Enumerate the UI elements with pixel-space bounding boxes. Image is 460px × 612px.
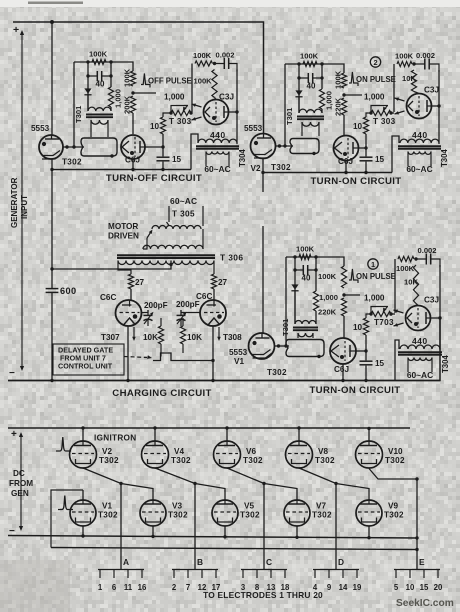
arrow turn-off to grid lower — [192, 117, 202, 120]
node DC bus tap V4 — [153, 426, 156, 429]
node turn-off cap40 left — [86, 74, 89, 77]
wire turn-on-1 pot-left to col3 — [366, 314, 371, 318]
wire turn-on-2 ground bus — [263, 172, 392, 174]
wire wiper to T306 primary — [143, 238, 147, 249]
wire V1 anode feed — [262, 226, 264, 333]
wire turn-on-2 right rail — [438, 70, 440, 144]
svg-text:1: 1 — [98, 583, 103, 592]
wire 10K right bottom — [182, 344, 184, 353]
svg-text:DRIVEN: DRIVEN — [108, 232, 139, 241]
wire anode V8 — [298, 428, 300, 441]
svg-text:V8: V8 — [318, 447, 328, 456]
arrow motor wiper — [147, 231, 152, 238]
transformer T304 turn-off — [196, 139, 239, 166]
node left rail at bottom bus — [50, 379, 53, 382]
svg-text:10: 10 — [353, 122, 363, 131]
wire cathode V3 — [152, 526, 154, 536]
node turn-on-1 cap40 left — [293, 268, 296, 271]
node turn-off plate junction — [161, 145, 164, 148]
wire turn-on-2 pulse stub — [344, 94, 362, 96]
svg-text:T302: T302 — [168, 511, 188, 520]
wire turn-off outer feedback rail — [73, 62, 75, 147]
ignitron 5553 V2 turn-on-2 — [251, 134, 276, 159]
wire turn-on-1 plate out — [431, 317, 441, 319]
svg-text:V2: V2 — [102, 447, 112, 456]
capacitor 15 turn-on-1 — [360, 360, 373, 365]
svg-text:10: 10 — [150, 122, 160, 131]
node gate to V1 column — [211, 359, 214, 362]
capacitor 40 turn-on-1 — [295, 269, 316, 271]
node turn-off 100K right — [109, 60, 112, 63]
node turn-off cathode a — [65, 145, 68, 148]
svg-text:5: 5 — [394, 583, 399, 592]
wire C6C right cathode — [212, 326, 214, 381]
labels electrodes 3-8-13-18 — [241, 583, 290, 592]
wire turn-on-1 C3J left rail — [394, 259, 396, 313]
node turn-on-2 cap40 left — [297, 76, 300, 79]
node left rail at turnoff bus — [50, 168, 53, 171]
wire turn-off right rail — [236, 70, 238, 145]
node turn-off col3 bus — [161, 168, 164, 171]
svg-text:C6C: C6C — [100, 293, 116, 302]
svg-text:1,000: 1,000 — [325, 91, 334, 110]
svg-text:440: 440 — [210, 130, 226, 140]
wire turn-on-1 top loop — [286, 257, 344, 266]
ignitron V2 — [70, 441, 97, 468]
svg-text:CONTROL UNIT: CONTROL UNIT — [58, 362, 113, 371]
svg-text:15: 15 — [375, 359, 385, 368]
node turn-on-1 pulse tap — [342, 293, 345, 296]
svg-text:100K: 100K — [300, 52, 319, 61]
resistor 10 turn-off — [160, 117, 165, 134]
node turn-on-1 C6J bus — [341, 379, 344, 382]
svg-text:GENERATOR: GENERATOR — [10, 177, 19, 228]
svg-text:T 303: T 303 — [373, 117, 396, 126]
svg-text:V5: V5 — [244, 502, 254, 511]
wire secondary left to 27 — [118, 261, 131, 275]
labels electrodes 2-7-12-17 — [172, 583, 221, 592]
svg-text:100K: 100K — [194, 77, 213, 86]
node turn-on-2 100K right — [320, 62, 323, 65]
thyratron C6J turn-off — [121, 135, 145, 159]
autotransformer T305 — [152, 226, 201, 230]
svg-text:0.002: 0.002 — [216, 51, 235, 60]
node column E cathode bus — [415, 548, 418, 551]
svg-text:ON PULSE: ON PULSE — [356, 272, 396, 281]
svg-text:10K: 10K — [402, 74, 416, 83]
node turn-off pulse tap — [131, 91, 134, 94]
wire turn-off grid drop — [132, 113, 134, 134]
wire turn-off C3J left rail — [191, 64, 193, 113]
node turn-on-2 C6J bus — [344, 171, 347, 174]
wire V2 cathode diagonal — [83, 468, 153, 500]
wire turn-on-1 1,000 bottom — [315, 311, 317, 324]
wire turn-off bus to T304 primary — [191, 134, 198, 170]
wire V6 cathode diagonal — [227, 468, 297, 500]
wire turn-on-1 bus to T304 primary — [395, 340, 399, 381]
svg-text:V2: V2 — [251, 164, 261, 173]
svg-text:V1: V1 — [234, 357, 244, 366]
thyratron C6J turn-on-1 — [330, 338, 356, 364]
svg-text:15: 15 — [420, 583, 429, 592]
wire V4 cathode diagonal — [155, 468, 225, 500]
svg-text:16: 16 — [138, 583, 147, 592]
wire V10 cathode to column E — [369, 469, 417, 570]
wire turn-off inner right rail — [110, 62, 112, 87]
electrode comb B — [172, 570, 218, 579]
svg-text:220K: 220K — [318, 308, 337, 317]
ignitron V10 — [356, 441, 383, 468]
wire C6C left cathode — [127, 326, 129, 381]
wire turn-on-1 inner right rail — [315, 257, 317, 291]
resistor 100K turn-off — [212, 70, 217, 98]
wire turn-on-1 C6J plate to col3 — [356, 350, 366, 352]
resistor 27 right — [211, 274, 216, 289]
wire 60AC leads — [169, 206, 203, 226]
node cathode bus V1 — [81, 534, 84, 537]
svg-text:200K: 200K — [123, 95, 132, 114]
svg-text:19: 19 — [353, 583, 362, 592]
svg-text:C3J: C3J — [424, 296, 439, 305]
transformer T306 secondary — [118, 261, 214, 265]
svg-text:T302: T302 — [384, 511, 404, 520]
svg-text:5553: 5553 — [244, 124, 263, 133]
resistor 10K left — [160, 318, 162, 326]
wire turn-off pot right to rail — [191, 112, 192, 114]
node turn-off C6J bus — [131, 168, 134, 171]
svg-text:V10: V10 — [388, 447, 403, 456]
capacitor 15 turn-on-2 — [360, 156, 373, 161]
svg-text:V4: V4 — [174, 447, 184, 456]
wire turn-on-1 5553 cathode to T302 — [275, 345, 290, 347]
node turn-off cap40 right — [109, 74, 112, 77]
svg-text:7: 7 — [186, 583, 190, 592]
svg-text:60~AC: 60~AC — [170, 196, 197, 206]
svg-text:T302: T302 — [243, 456, 263, 465]
node comb C — [262, 482, 265, 485]
svg-text:OFF PULSE: OFF PULSE — [148, 77, 192, 86]
capacitor 0.002 turn-on-1 — [416, 259, 440, 267]
node turn-off pot right — [189, 111, 192, 114]
svg-text:2: 2 — [172, 583, 177, 592]
svg-text:V3: V3 — [172, 502, 182, 511]
capacitor 200pF left — [144, 310, 154, 326]
node turn-on-1 pot right — [389, 312, 392, 315]
wire anode V10 — [368, 428, 370, 441]
wire turn-off col3 — [162, 134, 164, 170]
wire turn-off plate out — [229, 111, 238, 113]
triode C3J turn-on-2 — [407, 94, 432, 119]
arrow turn-off to grid upper — [192, 104, 202, 107]
svg-text:T 303: T 303 — [169, 117, 192, 126]
wire anode V6 — [226, 428, 228, 441]
svg-text:MOTOR: MOTOR — [108, 222, 138, 231]
node DC bus tap V10 — [367, 427, 370, 430]
wire turn-off grid cap — [215, 98, 217, 100]
node turn-on-2 top2 — [412, 62, 415, 65]
wire turn-off pot-left to col3 — [163, 113, 171, 117]
node top bus junction — [50, 20, 54, 24]
waveform ON PULSE turn-on-2 — [349, 72, 358, 86]
svg-text:60~AC: 60~AC — [407, 370, 433, 380]
wire turn-on-2 grid drop — [343, 115, 345, 135]
wire T306 primary right — [202, 229, 204, 249]
wire anode V1 — [82, 490, 84, 500]
svg-text:40: 40 — [307, 82, 316, 91]
electrode comb D — [313, 570, 359, 579]
node turn-on-2 col3 bus — [364, 171, 367, 174]
wire turn-off inner left rail — [87, 62, 89, 111]
node turn-on-2 plate rail — [437, 104, 440, 107]
wire left supply rail mid — [51, 159, 53, 269]
node turn-on-1 col3 bus — [364, 379, 367, 382]
svg-text:10K: 10K — [404, 277, 418, 286]
waveform OFF PULSE turn-off — [141, 74, 150, 88]
resistor 10 turn-on-1 — [363, 318, 368, 335]
capacitor 15 turn-off — [157, 156, 170, 161]
arrow turn-on-2 to grid lower — [395, 111, 405, 114]
svg-text:1: 1 — [371, 260, 375, 269]
svg-text:IGNITRON: IGNITRON — [94, 434, 136, 443]
node cathode bus V9 — [367, 536, 370, 539]
node turn-on-1 cathode a — [277, 344, 280, 347]
ignitron V3 — [140, 500, 166, 526]
arrow turn-on-1 to grid lower — [394, 323, 404, 326]
capacitor 40 turn-off — [88, 75, 111, 77]
wire turn-on-1 grid drop — [343, 316, 345, 338]
wire turn-on-2 plate out — [432, 105, 440, 107]
wire delayed gate dashed — [124, 357, 147, 358]
svg-text:100K: 100K — [296, 245, 315, 254]
svg-text:SeekIC.com: SeekIC.com — [396, 598, 454, 609]
node comb A — [119, 482, 122, 485]
node turn-on-2 plate junction — [364, 146, 367, 149]
resistor 200K turn-off — [130, 96, 135, 113]
thyratron C6C charging right — [200, 300, 226, 326]
wire charging bottom bus — [8, 317, 440, 381]
resistor 220K turn-on-2 — [341, 98, 346, 115]
svg-text:T308: T308 — [223, 333, 242, 342]
svg-text:T304: T304 — [440, 149, 449, 167]
arrow T307 ignitor — [133, 327, 135, 339]
node DC bus tap V6 — [225, 426, 228, 429]
svg-text:15: 15 — [375, 155, 385, 164]
svg-text:T301: T301 — [74, 105, 83, 123]
svg-text:1,000: 1,000 — [319, 293, 338, 302]
resistor 1,000 turn-on-1 — [313, 291, 318, 311]
node turn-on-1 top2 — [414, 257, 417, 260]
node comb D — [334, 482, 337, 485]
labels electrodes 1-6-11-16 — [98, 583, 147, 592]
transformer T304 turn-on-1 — [398, 345, 442, 372]
wire DC minus bus — [8, 536, 417, 539]
svg-text:0.002: 0.002 — [416, 51, 435, 60]
wire electrode column C — [263, 484, 265, 570]
electrode comb E — [394, 570, 440, 579]
capacitor 0.002 turn-off — [215, 64, 238, 72]
svg-text:T307: T307 — [101, 333, 120, 342]
svg-text:V7: V7 — [316, 502, 326, 511]
svg-text:T703: T703 — [374, 318, 394, 327]
wire turn-on-1 right rail — [439, 265, 441, 350]
svg-text:C6J: C6J — [334, 365, 349, 374]
transformer T306 core — [117, 254, 215, 256]
node turn-on-2 cap40 right — [320, 76, 323, 79]
ignitron 5553 turn-off — [39, 135, 63, 159]
box delayed gate — [53, 344, 124, 375]
wire turn-off 1,000 bottom — [110, 107, 112, 111]
svg-text:15: 15 — [172, 155, 182, 164]
waveform ignitor pulse V1 — [58, 496, 73, 510]
svg-text:100K: 100K — [334, 70, 343, 89]
svg-text:T 305: T 305 — [172, 210, 195, 219]
labels electrodes 4-9-14-19 — [313, 583, 362, 592]
svg-text:V6: V6 — [246, 447, 256, 456]
wire turn-on-2 pot right to rail — [391, 112, 394, 114]
svg-text:INPUT: INPUT — [20, 195, 29, 219]
node turn-on-2 cathode a — [278, 144, 281, 147]
node T306 center tap — [169, 263, 172, 266]
svg-text:27: 27 — [135, 278, 145, 287]
svg-text:T301: T301 — [281, 318, 290, 336]
svg-text:1,000: 1,000 — [364, 93, 385, 102]
resistor 100K plate turn-on-2 — [397, 61, 412, 66]
resistor 10 turn-on-2 — [363, 117, 368, 134]
resistor 27 left — [128, 274, 133, 289]
svg-text:1,000: 1,000 — [114, 89, 123, 108]
svg-text:100K: 100K — [396, 264, 415, 273]
svg-text:C: C — [266, 557, 272, 567]
svg-text:T302: T302 — [271, 163, 291, 172]
ignitron 5553 V1 turn-on-1 — [249, 333, 275, 359]
capacitor 40 turn-on-2 — [299, 77, 322, 79]
svg-text:C3J: C3J — [219, 93, 234, 102]
wire 27 left to C6C anode — [130, 289, 132, 300]
svg-text:1,000: 1,000 — [164, 93, 185, 102]
node turn-on-1 cathode b — [284, 344, 287, 347]
resistor 100K turn-on-1 grid — [299, 254, 311, 259]
ignitron V4 — [142, 441, 169, 468]
wire turn-on-2 5553 cathode to T302 — [276, 145, 294, 147]
wire turn-on-2 top loop — [285, 64, 344, 73]
wire grid left tube — [142, 312, 149, 314]
svg-text:10K: 10K — [187, 333, 202, 342]
svg-text:T302: T302 — [171, 456, 191, 465]
node V2 bus — [261, 171, 264, 174]
svg-text:1,000: 1,000 — [364, 294, 385, 303]
capacitor 600 — [51, 269, 53, 289]
electrode comb C — [241, 570, 287, 579]
transformer T304 turn-on-2 — [398, 139, 441, 166]
resistor 100K turn-off — [130, 71, 135, 86]
transformer T302 pulse winding turn-off — [81, 138, 117, 158]
node turn-on-2 cathode b — [283, 144, 286, 147]
svg-text:T302: T302 — [240, 511, 260, 520]
svg-text:60~AC: 60~AC — [204, 164, 230, 174]
svg-text:100K: 100K — [395, 52, 414, 61]
wire electrode column D — [335, 484, 337, 570]
resistor 100K turn-on-2 grid — [303, 61, 317, 66]
wire turn-on-1 pulse stub — [344, 294, 360, 296]
svg-text:TURN-ON CIRCUIT: TURN-ON CIRCUIT — [310, 176, 401, 187]
svg-text:T302: T302 — [62, 158, 82, 167]
svg-text:20: 20 — [434, 583, 443, 592]
svg-text:TO ELECTRODES 1 THRU 20: TO ELECTRODES 1 THRU 20 — [203, 590, 323, 600]
resistor 10K turn-on-1 — [413, 265, 418, 304]
ignitron V5 — [212, 500, 238, 526]
node turn-on-2 pot left — [369, 111, 372, 114]
svg-text:B: B — [197, 557, 203, 567]
svg-text:T302: T302 — [98, 511, 118, 520]
node turn-on-1 plate rail — [438, 316, 441, 319]
wire turn-on-2 grid cap — [414, 92, 419, 94]
resistor 100K turn-on-1 — [341, 266, 346, 288]
resistor 1,000 turn-on-2 — [319, 89, 324, 109]
wire 10K left bottom — [160, 344, 162, 357]
diode CR turn-on-1 — [291, 284, 298, 289]
node cathode bus V7 — [295, 536, 298, 539]
svg-text:+: + — [11, 429, 17, 440]
node turn-off pot left — [169, 111, 172, 114]
diode CR turn-on-2 — [295, 90, 302, 95]
svg-text:−: − — [9, 368, 15, 379]
svg-text:440: 440 — [412, 130, 428, 140]
triode C3J turn-off — [204, 100, 229, 125]
waveform ON PULSE turn-on-1 — [349, 269, 358, 283]
svg-text:2: 2 — [373, 58, 377, 67]
arrow turn-on-1 to grid upper — [394, 310, 404, 313]
node turn-on-1 cap40 right — [314, 268, 317, 271]
wire turn-on-1 pot right to rail — [391, 313, 395, 315]
svg-text:200pF: 200pF — [176, 300, 200, 309]
transformer T306 primary — [143, 245, 203, 249]
node DC bus tap V2 — [81, 426, 84, 429]
ignitron V6 — [214, 441, 241, 468]
wire electrode column A — [120, 484, 122, 570]
wire cathode V7 — [296, 526, 298, 537]
node comb B — [193, 482, 196, 485]
node turn-on-1 100K right — [314, 255, 317, 258]
node turn-on-2 pulse tap — [342, 93, 345, 96]
svg-text:T304: T304 — [238, 149, 247, 167]
electrode comb A — [98, 570, 144, 579]
svg-text:T302: T302 — [315, 456, 335, 465]
wire cathode V1 — [82, 526, 84, 536]
svg-text:FROM: FROM — [9, 479, 33, 488]
svg-text:TURN-ON CIRCUIT: TURN-ON CIRCUIT — [309, 385, 400, 396]
svg-text:60~AC: 60~AC — [406, 164, 432, 174]
thyratron C6C charging left — [116, 300, 142, 326]
wire grid right tube — [181, 312, 200, 314]
wire V2 anode drop — [262, 159, 264, 192]
resistor 100K turn-off grid — [92, 59, 106, 64]
svg-text:D: D — [338, 557, 344, 567]
node turn-off plate rail — [235, 110, 238, 113]
node DC bus tap V8 — [297, 426, 300, 429]
wire turn-on-2 1,000 bottom — [321, 109, 323, 113]
svg-text:T302: T302 — [312, 511, 332, 520]
dimension arrow generator input — [21, 32, 23, 369]
svg-text:11: 11 — [124, 583, 133, 592]
svg-text:440: 440 — [412, 336, 428, 346]
wire turn-on-2 bus to T304 primary — [392, 136, 399, 173]
wire turn-on-1 C6J cathode to bus — [342, 364, 344, 381]
svg-text:T304: T304 — [441, 355, 450, 373]
wire turn-off C6J cathode to bus — [132, 159, 134, 170]
svg-text:T301: T301 — [285, 107, 294, 125]
arrow turn-on-2 to grid upper — [395, 98, 405, 101]
wire left supply rail upper — [51, 22, 53, 136]
